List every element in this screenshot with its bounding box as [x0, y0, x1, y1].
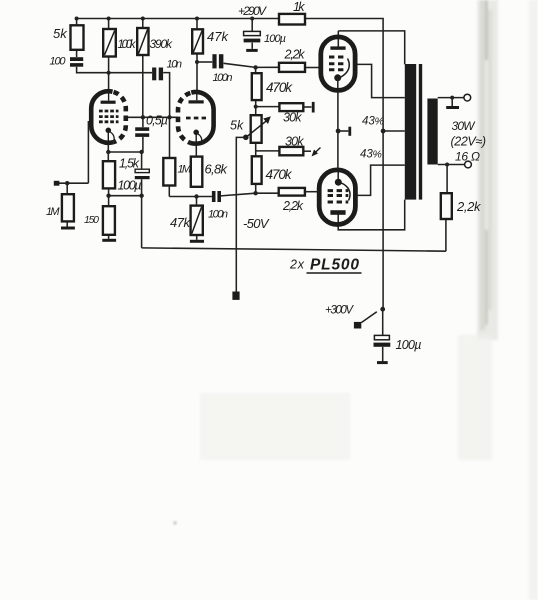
svg-text:1,5k: 1,5k [119, 157, 140, 171]
svg-text:30W: 30W [452, 119, 477, 133]
svg-text:100n: 100n [213, 72, 233, 84]
svg-text:2,2k: 2,2k [282, 199, 304, 213]
svg-text:150: 150 [84, 214, 99, 226]
svg-text:100µ: 100µ [264, 33, 286, 45]
svg-text:1M: 1M [46, 206, 60, 218]
svg-text:2,2k: 2,2k [284, 48, 306, 62]
svg-text:43: 43 [362, 116, 375, 128]
svg-text:47k: 47k [170, 215, 192, 230]
svg-text:PL500: PL500 [310, 257, 359, 274]
svg-text:1k: 1k [293, 0, 305, 14]
svg-text:100: 100 [50, 56, 67, 68]
svg-text:100n: 100n [208, 209, 228, 221]
svg-text:30k: 30k [283, 111, 302, 125]
svg-text:%: % [373, 149, 382, 161]
svg-text:+290V: +290V [238, 4, 267, 18]
svg-text:%: % [375, 116, 384, 128]
svg-text:5k: 5k [230, 119, 244, 133]
svg-text:5k: 5k [53, 26, 68, 41]
svg-text:100µ: 100µ [396, 338, 422, 352]
svg-text:2x: 2x [289, 258, 305, 272]
svg-text:10n: 10n [167, 59, 183, 71]
svg-text:+300V: +300V [325, 305, 354, 317]
svg-text:16 Ω: 16 Ω [455, 150, 480, 164]
svg-text:0,5µ: 0,5µ [146, 114, 168, 128]
svg-text:43: 43 [360, 149, 373, 161]
svg-text:(22V≈): (22V≈) [451, 135, 487, 149]
svg-text:47k: 47k [207, 29, 230, 44]
svg-text:100k: 100k [118, 39, 137, 51]
svg-text:6,8k: 6,8k [205, 162, 229, 177]
svg-text:1M: 1M [178, 164, 192, 176]
svg-text:2,2k: 2,2k [456, 199, 482, 214]
svg-text:390k: 390k [150, 37, 174, 51]
svg-text:-50V: -50V [243, 216, 270, 231]
svg-text:30k: 30k [285, 135, 304, 149]
svg-text:470k: 470k [266, 167, 293, 182]
svg-text:100µ: 100µ [118, 179, 142, 193]
svg-text:470k: 470k [266, 80, 293, 95]
